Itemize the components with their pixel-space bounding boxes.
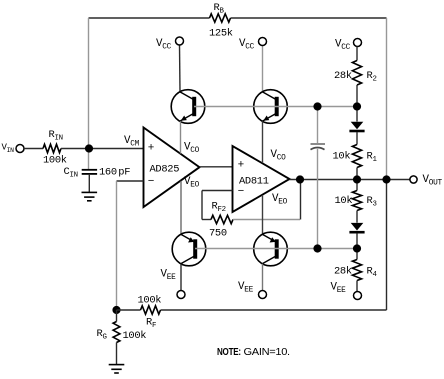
transistor Q4 (254, 232, 288, 266)
label AD811 VEO (272, 193, 288, 207)
svg-text:VOUT: VOUT (423, 174, 443, 188)
op-amp U2 AD811 (233, 146, 290, 212)
svg-text:GAIN=10.: GAIN=10. (244, 347, 290, 358)
resistor R4 (352, 260, 361, 281)
svg-text:VEE: VEE (331, 282, 347, 296)
svg-text:10k: 10k (335, 195, 353, 207)
wire R3 to D2 (356, 211, 358, 223)
label RIN (49, 129, 63, 143)
wire AD825 VEO to Q3 (180, 181, 182, 235)
wire CIN to ground (88, 174, 90, 193)
svg-text:−: − (148, 176, 154, 188)
wire right rail upper (386, 18, 388, 180)
wire VIN to RIN (24, 148, 43, 150)
label VEE3 (331, 282, 347, 296)
wire output feedback vertical (300, 180, 302, 220)
wire R1 to node (356, 168, 358, 191)
wire node to RF (117, 309, 141, 311)
node AD811 output (296, 175, 304, 183)
svg-text:+: + (148, 143, 154, 155)
wire base rail top (194, 106, 357, 108)
svg-text:VCC: VCC (239, 38, 255, 52)
svg-text:10k: 10k (333, 151, 351, 163)
terminal VEE3 (354, 292, 362, 300)
wire AD825 output to AD811 plus (200, 166, 233, 168)
label R3 value 10k (335, 195, 353, 207)
label AD811 minus (238, 186, 244, 198)
svg-text:VCC: VCC (156, 38, 172, 52)
node output R1 R3 (353, 175, 361, 183)
svg-text:CIN: CIN (64, 166, 78, 180)
label RF (146, 317, 156, 331)
transistor Q3 (172, 232, 206, 266)
svg-text:R4: R4 (367, 266, 378, 280)
terminal VOUT (410, 176, 417, 183)
label AD811 plus (238, 159, 244, 171)
label AD825 VEO (184, 176, 200, 190)
wire AD811 VEO to Q4 (262, 195, 264, 235)
svg-text:RG: RG (97, 328, 107, 342)
label AD825 name (150, 164, 180, 176)
resistor R1 (352, 145, 361, 168)
capacitor comp (311, 144, 326, 150)
label VCC3 (335, 39, 351, 53)
terminal VCC2 (259, 38, 267, 46)
label R1 value 10k (333, 151, 351, 163)
wire RIN to node to op-amp (61, 148, 144, 150)
node cap bottom (313, 244, 321, 252)
label AD825 VCO (184, 142, 200, 156)
svg-text:28k: 28k (334, 70, 352, 82)
transistor Q2 (254, 90, 288, 124)
svg-text:100k: 100k (123, 330, 147, 342)
wire R2 to D1 (356, 85, 358, 122)
wire VCC1 stub (179, 45, 182, 92)
node VOUT rail junction (382, 175, 390, 183)
svg-text:RB: RB (214, 2, 225, 16)
label R4 (367, 266, 378, 280)
label AD811 name (239, 176, 269, 188)
resistor R2 (352, 61, 361, 86)
label CIN value 160 pF (99, 167, 130, 179)
wire RF2 to output node (233, 219, 300, 221)
svg-text:750: 750 (209, 228, 227, 240)
svg-text:VEE: VEE (161, 269, 177, 283)
wire RG to ground (116, 343, 118, 365)
label RF value 100k (138, 295, 162, 307)
resistor R3 (352, 191, 361, 211)
label R2 (367, 70, 377, 84)
svg-text:VCM: VCM (124, 135, 140, 149)
wire base rail bottom (195, 248, 357, 250)
resistor RB (210, 14, 231, 22)
wire VCC3 to R2 (356, 47, 358, 61)
svg-text:VEO: VEO (184, 176, 200, 190)
wire bottom rail (161, 309, 387, 311)
wire AD825 minus input (117, 180, 144, 182)
wire RF2 left leg (202, 191, 211, 220)
svg-text:VCC: VCC (335, 39, 351, 53)
label RF2 (212, 201, 226, 215)
wire comp cap net (317, 107, 319, 249)
svg-text:VEO: VEO (272, 193, 288, 207)
transistor Q1 (171, 90, 205, 124)
ground below CIN (82, 192, 98, 200)
label VEE2 (238, 281, 254, 295)
node cap top (313, 102, 321, 110)
label CIN (64, 166, 78, 180)
wire input node vertical (88, 18, 90, 170)
wire output (290, 179, 411, 181)
diode D1 (349, 122, 364, 131)
node base rail R2 (353, 102, 361, 110)
wire VCC2 stub (262, 46, 264, 93)
label AD811 VCO (271, 149, 287, 163)
wire right rail lower (386, 180, 388, 311)
label RB value 125k (209, 28, 233, 40)
svg-text:VCO: VCO (271, 149, 287, 163)
label R1 (367, 151, 378, 165)
svg-text:VCO: VCO (184, 142, 200, 156)
wire AD811 minus input (202, 190, 233, 192)
resistor RF2 (211, 215, 233, 223)
wire Q3 to VEE1 (180, 264, 182, 291)
ground below RG (109, 365, 125, 373)
label R2 value 28k (334, 70, 352, 82)
label VCC1 (156, 38, 172, 52)
label RG value 100k (123, 330, 147, 342)
svg-text:−: − (238, 186, 244, 198)
svg-text:+: + (238, 159, 244, 171)
label R4 value 28k (334, 266, 352, 278)
wire Q2 emitter to AD811 VCO (262, 121, 264, 163)
terminal VIN (16, 145, 24, 153)
wire feedback vertical to RF node (116, 181, 118, 310)
resistor RIN (43, 144, 61, 152)
svg-text:AD825: AD825 (150, 164, 180, 176)
note text (217, 347, 290, 358)
label RG (97, 328, 107, 342)
wire Q1 emitter to AD825 VCO (180, 121, 182, 153)
terminal VEE2 (259, 291, 267, 299)
resistor RG (113, 322, 120, 343)
label VIN (2, 143, 15, 155)
svg-text:R3: R3 (367, 195, 377, 209)
label RB (214, 2, 225, 16)
label VEE1 (161, 269, 177, 283)
svg-text:100k: 100k (43, 155, 67, 167)
wire Q4 to VEE2 (262, 264, 264, 291)
label VCM (124, 135, 140, 149)
terminal VCC3 (354, 39, 362, 47)
label R3 (367, 195, 377, 209)
label AD825 minus (148, 176, 154, 188)
label VCC2 (239, 38, 255, 52)
svg-text:VEE: VEE (238, 281, 254, 295)
svg-text:NOTE:: NOTE: (217, 347, 241, 358)
wire RG top lead (116, 310, 118, 322)
wire R4 to VEE3 (356, 281, 358, 292)
wire D1 to R1 (356, 132, 358, 145)
label RIN value 100k (43, 155, 67, 167)
svg-text:R1: R1 (367, 151, 378, 165)
svg-text:RF2: RF2 (212, 201, 226, 215)
svg-text:160: 160 (99, 167, 117, 179)
diode D2 (349, 223, 364, 232)
svg-text:R2: R2 (367, 70, 377, 84)
capacitor CIN (82, 170, 97, 174)
svg-text:VIN: VIN (2, 143, 15, 155)
svg-text:100k: 100k (138, 295, 162, 307)
svg-text:pF: pF (118, 167, 130, 179)
terminal VEE1 (177, 291, 185, 299)
svg-text:RF: RF (146, 317, 156, 331)
node base rail R4 (353, 244, 361, 252)
label RF2 value 750 (209, 228, 227, 240)
svg-text:RIN: RIN (49, 129, 63, 143)
svg-text:28k: 28k (334, 266, 352, 278)
op-amp U1 AD825 (144, 128, 200, 208)
terminal VCC1 (176, 37, 184, 45)
label AD825 plus (148, 143, 154, 155)
label VOUT (423, 174, 443, 188)
resistor RF (141, 306, 161, 314)
node RF RG junction (112, 306, 120, 314)
svg-text:125k: 125k (209, 28, 233, 40)
wire top feedback rail (89, 17, 387, 19)
node input junction (85, 144, 93, 152)
wire D2 to R4 (356, 233, 358, 259)
